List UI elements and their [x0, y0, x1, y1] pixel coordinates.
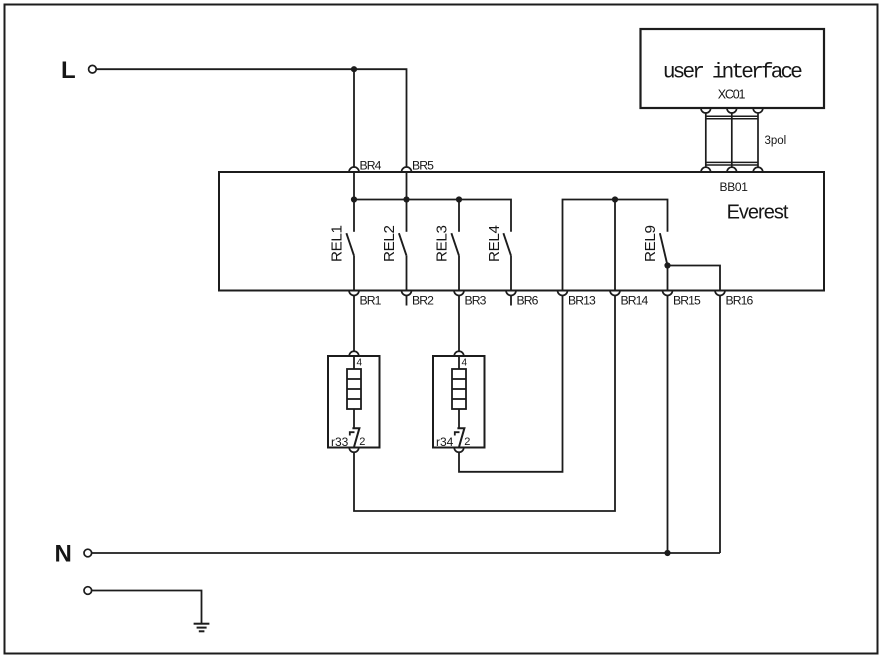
wire relay bus 2 (BR13 up, across, down to REL9) [563, 200, 668, 291]
svg-text:4: 4 [462, 358, 468, 369]
svg-text:BR3: BR3 [465, 294, 487, 308]
svg-text:Everest: Everest [727, 202, 789, 224]
wire BR15 down to N line [667, 296, 669, 554]
connector BB01 pins [701, 167, 763, 194]
wire BR3 to r34 [458, 296, 460, 352]
wire REL9 pivot to BR16 [668, 266, 721, 291]
terminal BR4 [349, 158, 382, 172]
node junction REL9 pivot [664, 262, 670, 268]
wire BR5 to bus [406, 172, 408, 200]
heater r34 [433, 351, 485, 452]
terminal BR14 [610, 291, 649, 308]
terminal BR2 [402, 291, 435, 308]
terminal BR16 [715, 291, 754, 308]
svg-text:user interface: user interface [663, 62, 802, 85]
terminal BR5 [402, 158, 435, 172]
user interface box [641, 29, 825, 108]
node L [61, 57, 96, 84]
svg-text:BR1: BR1 [360, 294, 382, 308]
relay REL4 [486, 225, 511, 290]
svg-text:REL1: REL1 [329, 225, 346, 262]
svg-text:2: 2 [464, 436, 470, 448]
svg-text:4: 4 [357, 358, 363, 369]
ground [194, 624, 210, 632]
svg-text:BB01: BB01 [720, 180, 749, 194]
svg-text:BR6: BR6 [517, 294, 539, 308]
terminal PE [84, 587, 92, 595]
svg-text:2: 2 [359, 436, 365, 448]
svg-text:BR13: BR13 [568, 294, 596, 308]
terminal BR6 [506, 291, 539, 308]
node junction bus1 at REL1 [351, 196, 357, 202]
relay REL1 [329, 200, 355, 291]
svg-text:REL2: REL2 [381, 225, 398, 262]
wire PE to ground [92, 591, 202, 624]
terminal BR1 [349, 291, 382, 308]
heater r33 [328, 351, 380, 452]
wire REL9 pivot to BR15 [667, 266, 669, 291]
relay REL9 [642, 225, 668, 265]
connector XC01 pins [701, 88, 763, 114]
svg-text:REL9: REL9 [642, 225, 659, 262]
node N [55, 541, 92, 568]
svg-text:3pol: 3pol [765, 135, 787, 147]
svg-text:BR14: BR14 [621, 294, 649, 308]
node junction on L wire [351, 66, 357, 72]
svg-text:r34: r34 [436, 435, 454, 449]
svg-text:r33: r33 [331, 435, 349, 449]
connector 3pol block [706, 113, 786, 167]
terminal BR3 [454, 291, 487, 308]
svg-text:BR4: BR4 [360, 158, 382, 172]
wire BR4 to bus [353, 172, 355, 200]
node junction bus1 at REL2 [403, 196, 409, 202]
node junction N line at BR15 [664, 550, 670, 556]
relay REL2 [381, 200, 407, 291]
svg-text:L: L [61, 57, 76, 84]
svg-text:BR16: BR16 [726, 294, 754, 308]
wire BR14 to bus2 [614, 200, 616, 291]
svg-text:BR2: BR2 [412, 294, 434, 308]
wire BR16 down to N line [719, 296, 721, 554]
node junction bus2 at BR14 [612, 196, 618, 202]
box Everest [219, 172, 824, 291]
svg-text:BR5: BR5 [412, 158, 434, 172]
wire BR1 to r33 [353, 296, 355, 352]
svg-text:XC01: XC01 [718, 88, 746, 102]
relay REL3 [434, 200, 460, 291]
svg-text:BR15: BR15 [673, 294, 701, 308]
svg-text:REL4: REL4 [486, 225, 503, 262]
wire N line [92, 552, 720, 554]
terminal BR15 [663, 291, 702, 308]
wire BR2 stub [406, 296, 408, 306]
wire L junction down to BR4 [353, 69, 355, 167]
wire L to BR5 drop [96, 69, 406, 167]
wire r34 bottom to BR13 [459, 296, 563, 472]
wire relay bus 1 [354, 200, 511, 232]
terminal BR13 [558, 291, 597, 308]
svg-text:N: N [55, 541, 72, 568]
wire BR6 stub [510, 296, 512, 306]
node junction bus1 at REL3 [456, 196, 462, 202]
svg-text:REL3: REL3 [434, 225, 451, 262]
wire r33 bottom to BR14 [354, 296, 615, 512]
